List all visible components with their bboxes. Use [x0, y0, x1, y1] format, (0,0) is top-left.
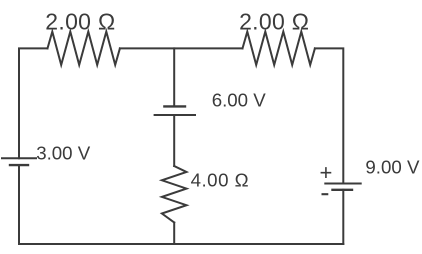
wire left side lower	[18, 165, 20, 244]
wire top-left segment and left side upper	[19, 48, 48, 158]
wire top-right segment and right side upper	[315, 48, 343, 183]
svg-text:6.00 V: 6.00 V	[212, 89, 267, 110]
resistor R2 (2.00 ohm, top right)	[243, 32, 315, 65]
battery V3 minus sign	[322, 193, 329, 195]
svg-text:+: +	[320, 160, 333, 185]
battery V3 long plate (positive)	[325, 183, 360, 185]
wire top-middle segment	[120, 47, 243, 49]
resistor R3 (4.00 ohm, vertical)	[162, 166, 187, 223]
battery V2 long plate (positive)	[155, 114, 195, 116]
battery V3 short plate (negative)	[333, 189, 353, 191]
wire right side lower	[342, 190, 344, 244]
svg-text:3.00 V: 3.00 V	[36, 142, 91, 163]
svg-text:4.00 Ω: 4.00 Ω	[191, 169, 250, 190]
wire bottom segment	[19, 243, 343, 245]
battery V2 short plate (negative)	[164, 105, 185, 107]
battery V1 short plate (negative)	[10, 164, 28, 166]
battery V1 long plate (positive)	[2, 157, 36, 159]
svg-text:2.00 Ω: 2.00 Ω	[239, 8, 309, 34]
wire middle lower segment	[173, 223, 175, 245]
wire middle mid segment	[173, 115, 175, 166]
wire middle upper segment	[173, 48, 175, 106]
svg-text:2.00 Ω: 2.00 Ω	[45, 8, 115, 34]
resistor R1 (2.00 ohm, top left)	[48, 32, 120, 65]
svg-text:9.00 V: 9.00 V	[365, 157, 420, 178]
